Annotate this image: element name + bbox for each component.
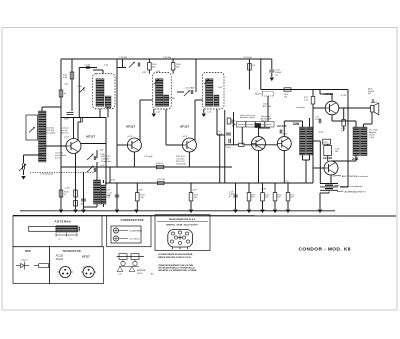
svg-text:100: 100 bbox=[265, 197, 268, 199]
svg-text:248: 248 bbox=[352, 157, 358, 161]
svg-text:L.USC.: L.USC. bbox=[315, 119, 322, 121]
svg-text:a richiesta: a richiesta bbox=[296, 106, 306, 109]
svg-text:Interruttore incorporato: Interruttore incorporato bbox=[340, 185, 363, 188]
svg-text:8 Ω: 8 Ω bbox=[368, 93, 372, 95]
svg-text:AF117: AF117 bbox=[180, 124, 189, 128]
svg-text:-0,9V: -0,9V bbox=[138, 190, 143, 192]
svg-text:+0,7V: +0,7V bbox=[182, 136, 188, 138]
svg-text:0,3 mA: 0,3 mA bbox=[55, 157, 62, 160]
svg-text:+0,8V: +0,8V bbox=[261, 189, 267, 191]
svg-text:2,2μF: 2,2μF bbox=[226, 147, 232, 149]
svg-text:L.2: L.2 bbox=[58, 239, 61, 241]
svg-text:-0,6V: -0,6V bbox=[318, 132, 323, 134]
svg-text:C.11 68pF: C.11 68pF bbox=[185, 88, 195, 90]
svg-text:Altoparl.: Altoparl. bbox=[369, 131, 377, 134]
svg-text:R.06 1k: R.06 1k bbox=[156, 163, 164, 165]
svg-text:C.05 Sintonia: C.05 Sintonia bbox=[40, 172, 54, 175]
svg-text:AC 2200: AC 2200 bbox=[263, 105, 272, 108]
svg-text:L.1: L.1 bbox=[69, 239, 72, 241]
svg-text:C.04 ANTENNA: C.04 ANTENNA bbox=[129, 230, 143, 233]
svg-text:TENSIONI MISURATE CON VOLTME-: TENSIONI MISURATE CON VOLTME- bbox=[158, 264, 194, 267]
svg-text:NEGATIVE ) Si RIFERISCONO a TE: NEGATIVE ) Si RIFERISCONO a TERRA bbox=[158, 269, 197, 272]
svg-text:C.10 μμF: C.10 μμF bbox=[144, 156, 153, 158]
svg-text:C.25: C.25 bbox=[207, 112, 211, 114]
svg-text:Osc.500kc: Osc.500kc bbox=[46, 133, 56, 135]
svg-text:R.11 10k: R.11 10k bbox=[157, 179, 166, 181]
svg-text:-0,9V: -0,9V bbox=[192, 190, 197, 192]
svg-text:schema: schema bbox=[21, 260, 29, 262]
svg-text:AF117: AF117 bbox=[86, 134, 95, 138]
svg-text:ceramici: ceramici bbox=[247, 123, 255, 126]
svg-text:C.09 40n: C.09 40n bbox=[163, 57, 171, 59]
svg-text:CONDOR - MOD. K8: CONDOR - MOD. K8 bbox=[299, 246, 351, 252]
svg-text:1,6 Ω: 1,6 Ω bbox=[369, 137, 374, 139]
svg-text:C.04: C.04 bbox=[77, 86, 82, 88]
svg-text:TRANSISTOR: TRANSISTOR bbox=[62, 250, 81, 253]
svg-text:C 1nF: C 1nF bbox=[84, 65, 91, 67]
svg-text:+0,7V: +0,7V bbox=[127, 136, 133, 138]
svg-text:ALIMENTAZIONE 9 V.: ALIMENTAZIONE 9 V. bbox=[345, 191, 367, 194]
svg-text:100: 100 bbox=[251, 197, 254, 199]
svg-text:R.19: R.19 bbox=[324, 142, 328, 144]
svg-text:Condens.: Condens. bbox=[237, 124, 246, 126]
svg-text:COMPENSATORE: COMPENSATORE bbox=[121, 219, 144, 222]
svg-text:Reg.Vol.: Reg.Vol. bbox=[255, 94, 263, 96]
svg-text:560: 560 bbox=[194, 197, 197, 199]
svg-text:140 mm: 140 mm bbox=[61, 133, 69, 135]
svg-text:diversam. indicati: diversam. indicati bbox=[240, 116, 255, 119]
svg-text:L.05: L.05 bbox=[118, 274, 122, 276]
svg-text:-0,15V: -0,15V bbox=[340, 95, 347, 97]
svg-text:30: 30 bbox=[83, 90, 85, 92]
svg-text:C.12 30n: C.12 30n bbox=[167, 98, 175, 100]
svg-text:LE RESISTENZE SE NON DIVERSA-: LE RESISTENZE SE NON DIVERSA- bbox=[158, 253, 193, 256]
svg-text:-0,2V: -0,2V bbox=[64, 137, 69, 139]
svg-text:AF117: AF117 bbox=[82, 255, 90, 259]
svg-text:+1,6V: +1,6V bbox=[282, 134, 288, 136]
svg-text:Termostab.: Termostab. bbox=[101, 160, 112, 163]
svg-text:indicati: indicati bbox=[266, 123, 272, 126]
svg-text:Termostab.: Termostab. bbox=[176, 162, 187, 165]
svg-text:120: 120 bbox=[100, 150, 103, 152]
svg-text:R.23: R.23 bbox=[142, 72, 146, 74]
svg-text:Pri. totale: Pri. totale bbox=[369, 129, 378, 132]
svg-text:-1,4V: -1,4V bbox=[65, 188, 71, 190]
svg-text:560: 560 bbox=[141, 197, 144, 199]
svg-text:C.18 40n: C.18 40n bbox=[119, 57, 127, 59]
svg-text:328: 328 bbox=[293, 121, 300, 126]
svg-text:+0,9V: +0,9V bbox=[110, 180, 116, 182]
svg-text:DISP.: DISP. bbox=[25, 251, 31, 253]
svg-text:MENTE INDICATE SONO Di 1/2 W.: MENTE INDICATE SONO Di 1/2 W. bbox=[158, 256, 191, 259]
svg-text:ANTENNA: ANTENNA bbox=[137, 269, 146, 272]
svg-text:130 Ω: 130 Ω bbox=[261, 121, 267, 123]
svg-text:2,2μF: 2,2μF bbox=[217, 133, 223, 135]
svg-text:AF117: AF117 bbox=[126, 124, 135, 128]
svg-text:100: 100 bbox=[277, 197, 280, 199]
svg-text:DIRETTA - VISTA - DAL DI SOTTO: DIRETTA - VISTA - DAL DI SOTTO bbox=[166, 224, 198, 227]
svg-text:ANTENNA: ANTENNA bbox=[55, 220, 72, 224]
svg-text:TRASFORMATORE Di A.F.: TRASFORMATORE Di A.F. bbox=[168, 218, 195, 221]
svg-text:C.05 OSCILL.: C.05 OSCILL. bbox=[129, 239, 141, 241]
svg-text:AL104: AL104 bbox=[371, 101, 378, 104]
svg-text:100: 100 bbox=[290, 197, 293, 199]
svg-text:AC125: AC125 bbox=[277, 124, 287, 128]
svg-text:C.22: C.22 bbox=[156, 112, 160, 114]
svg-text:10nF: 10nF bbox=[64, 119, 70, 121]
svg-text:ASCOLTATORE a richiesta: ASCOLTATORE a richiesta bbox=[342, 175, 369, 178]
svg-text:OSCILL.: OSCILL. bbox=[137, 273, 144, 275]
svg-text:AC128: AC128 bbox=[56, 258, 64, 261]
svg-text:R.22 10k: R.22 10k bbox=[244, 57, 252, 59]
